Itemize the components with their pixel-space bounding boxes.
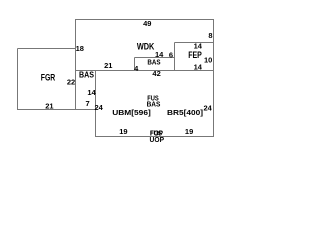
wall: garage FGR left edge [17,49,19,111]
wall: main mid horizontal line (42 ft) [76,70,215,72]
svg-text:19: 19 [185,127,193,136]
wall: right edge full height [213,19,215,137]
svg-text:18: 18 [76,44,84,53]
wall: lower block left edge (24 ft) [95,71,97,138]
svg-text:BR5[400]: BR5[400] [167,108,204,117]
svg-text:FEP: FEP [188,50,202,61]
svg-text:7: 7 [86,99,90,108]
svg-text:6: 6 [169,51,173,60]
svg-text:14: 14 [194,63,203,72]
svg-text:22: 22 [67,78,75,87]
svg-text:FGR: FGR [41,73,56,83]
svg-text:UBM[596]: UBM[596] [112,108,151,117]
wall: garage bottom edge + jog (21+7 ft) [18,109,97,111]
wall: garage FGR top edge [18,48,77,50]
wall: main left edge (18+14 ft) [75,19,77,110]
svg-text:10: 10 [204,56,212,65]
wall: BAS bump left edge [134,58,136,72]
svg-text:21: 21 [45,102,53,111]
wall: FEP top edge [175,42,215,44]
svg-text:8: 8 [208,31,212,40]
svg-text:21: 21 [104,61,112,70]
svg-text:49: 49 [143,19,151,28]
wall: main top edge (49 ft) [76,19,215,21]
svg-text:19: 19 [119,127,127,136]
wall: bottom edge (19+19 ft) [96,136,215,138]
wall: BAS bump top edge [135,57,175,59]
svg-text:BAS: BAS [147,58,160,67]
svg-text:4: 4 [134,64,139,73]
svg-text:BAS: BAS [79,70,95,79]
svg-text:24: 24 [204,104,213,113]
svg-text:14: 14 [87,88,96,97]
wall: FEP left edge [174,43,176,72]
svg-text:42: 42 [152,69,160,78]
svg-text:WDK: WDK [137,42,155,52]
svg-text:24: 24 [95,103,104,112]
svg-text:UOP: UOP [150,135,165,144]
